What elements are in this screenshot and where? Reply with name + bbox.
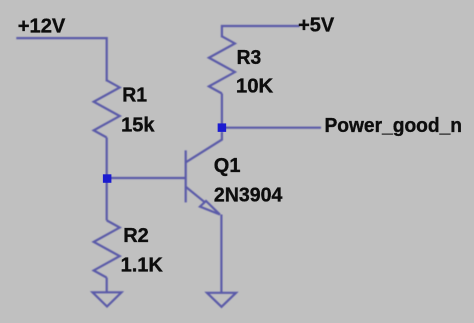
wire +5V rail	[222, 26, 299, 36]
wire +12V rail	[17, 38, 106, 80]
node junction collector	[218, 123, 227, 131]
node junction left	[103, 174, 112, 183]
svg-text:R2: R2	[123, 225, 149, 247]
svg-text:10K: 10K	[236, 76, 274, 98]
wire R3 to collector node	[221, 94, 223, 128]
svg-text:15k: 15k	[121, 115, 155, 137]
svg-text:+12V: +12V	[18, 16, 66, 38]
wire R1 to node to R2	[106, 138, 108, 221]
resistor R1	[94, 80, 120, 137]
svg-text:Q1: Q1	[214, 155, 241, 177]
svg-text:R1: R1	[122, 85, 147, 107]
transistor Q1 base bar	[185, 150, 187, 202]
resistor R2	[94, 220, 120, 277]
transistor Q1 emitter lead	[186, 187, 205, 202]
resistor R3	[209, 36, 235, 93]
wire Power_good_n	[222, 127, 321, 129]
svg-text:R3: R3	[237, 47, 262, 69]
wire R2 to ground	[106, 278, 108, 293]
svg-text:Power_good_n: Power_good_n	[325, 115, 463, 137]
svg-text:1.1K: 1.1K	[121, 255, 164, 277]
wire emitter to ground	[220, 215, 222, 293]
svg-text:2N3904: 2N3904	[214, 184, 283, 206]
transistor Q1 collector lead	[186, 132, 222, 163]
svg-text:+5V: +5V	[298, 15, 335, 37]
wire base	[107, 177, 186, 179]
transistor Q1 emitter arrowhead	[200, 201, 220, 215]
ground (right)	[207, 293, 236, 307]
ground (left)	[93, 292, 122, 306]
